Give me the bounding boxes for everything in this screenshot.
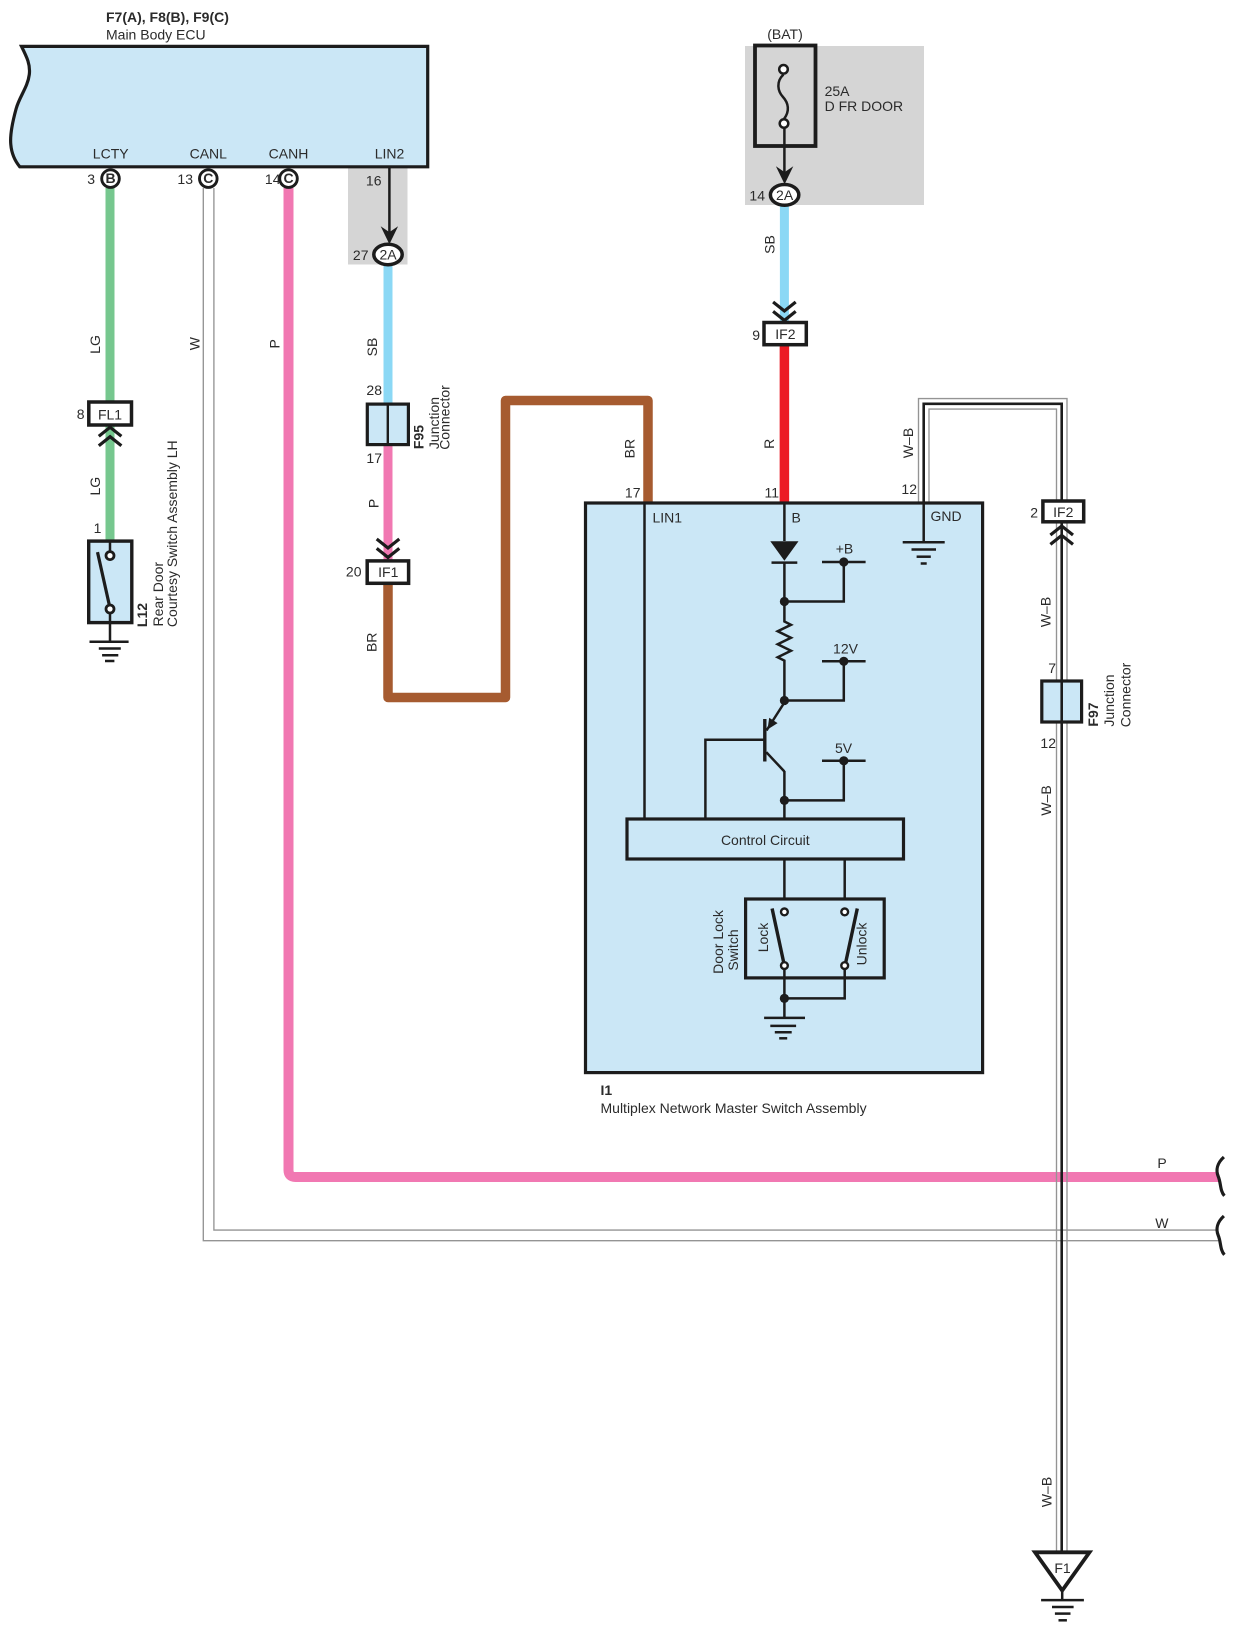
svg-text:W: W [187, 336, 203, 350]
svg-text:17: 17 [366, 450, 382, 466]
svg-text:1: 1 [94, 520, 102, 536]
svg-text:B: B [792, 510, 801, 526]
svg-text:GND: GND [931, 508, 962, 524]
svg-text:BR: BR [364, 633, 380, 652]
svg-text:C: C [203, 170, 213, 186]
svg-text:12V: 12V [833, 641, 859, 657]
svg-text:LIN2: LIN2 [375, 146, 405, 162]
svg-text:FL1: FL1 [98, 407, 122, 423]
svg-text:L12: L12 [134, 603, 150, 627]
svg-text:5V: 5V [835, 740, 853, 756]
svg-text:9: 9 [752, 327, 760, 343]
svg-text:LG: LG [87, 335, 103, 354]
svg-text:20: 20 [346, 564, 362, 580]
svg-text:2: 2 [1030, 505, 1038, 521]
svg-text:16: 16 [366, 173, 382, 189]
svg-text:17: 17 [625, 485, 641, 501]
svg-text:2A: 2A [379, 247, 397, 263]
svg-text:SB: SB [364, 338, 380, 357]
svg-text:W: W [1155, 1215, 1169, 1231]
svg-text:IF2: IF2 [775, 326, 795, 342]
svg-text:11: 11 [764, 485, 779, 501]
svg-text:I1: I1 [601, 1082, 613, 1098]
svg-text:12: 12 [901, 481, 917, 497]
svg-text:14: 14 [749, 188, 765, 204]
svg-text:Multiplex Network Master Switc: Multiplex Network Master Switch Assembly [601, 1100, 867, 1116]
svg-text:F97: F97 [1085, 702, 1101, 726]
svg-text:12: 12 [1040, 735, 1056, 751]
svg-text:F7(A), F8(B), F9(C): F7(A), F8(B), F9(C) [106, 9, 229, 25]
svg-text:Unlock: Unlock [854, 922, 870, 966]
svg-text:Lock: Lock [755, 922, 771, 953]
svg-text:BR: BR [622, 439, 638, 458]
svg-text:CANL: CANL [190, 146, 228, 162]
svg-text:Main Body ECU: Main Body ECU [106, 27, 206, 43]
svg-text:13: 13 [177, 171, 193, 187]
svg-text:LG: LG [87, 477, 103, 496]
svg-text:IF2: IF2 [1053, 504, 1073, 520]
svg-text:W–B: W–B [900, 428, 916, 458]
svg-text:SB: SB [761, 235, 777, 254]
svg-text:Connector: Connector [436, 385, 452, 450]
svg-text:LCTY: LCTY [93, 146, 129, 162]
svg-text:Control Circuit: Control Circuit [721, 832, 810, 848]
svg-text:Courtesy Switch Assembly LH: Courtesy Switch Assembly LH [164, 440, 180, 627]
svg-text:CANH: CANH [269, 146, 309, 162]
svg-text:(BAT): (BAT) [767, 26, 803, 42]
svg-text:F95: F95 [411, 425, 427, 449]
svg-text:P: P [267, 339, 283, 348]
svg-text:B: B [105, 170, 115, 186]
svg-text:Junction: Junction [1101, 674, 1117, 726]
svg-text:+B: +B [836, 541, 854, 557]
svg-text:R: R [761, 439, 777, 449]
svg-text:28: 28 [366, 382, 382, 398]
svg-text:14: 14 [265, 171, 281, 187]
svg-text:W–B: W–B [1039, 1477, 1055, 1507]
svg-text:27: 27 [353, 247, 369, 263]
svg-text:25A: 25A [825, 83, 851, 99]
svg-text:3: 3 [87, 171, 95, 187]
svg-text:Connector: Connector [1118, 662, 1134, 727]
svg-text:F1: F1 [1054, 1560, 1071, 1576]
svg-text:Door Lock: Door Lock [710, 909, 726, 974]
svg-text:7: 7 [1048, 660, 1056, 676]
svg-text:Switch: Switch [725, 929, 741, 970]
svg-text:P: P [1157, 1155, 1166, 1171]
svg-text:W–B: W–B [1038, 785, 1054, 815]
svg-text:C: C [283, 170, 293, 186]
svg-text:8: 8 [77, 406, 85, 422]
svg-text:IF1: IF1 [378, 564, 398, 580]
svg-text:LIN1: LIN1 [653, 510, 683, 526]
svg-text:2A: 2A [776, 187, 794, 203]
svg-text:P: P [366, 499, 382, 508]
svg-text:W–B: W–B [1038, 597, 1054, 627]
svg-text:D FR DOOR: D FR DOOR [825, 98, 904, 114]
